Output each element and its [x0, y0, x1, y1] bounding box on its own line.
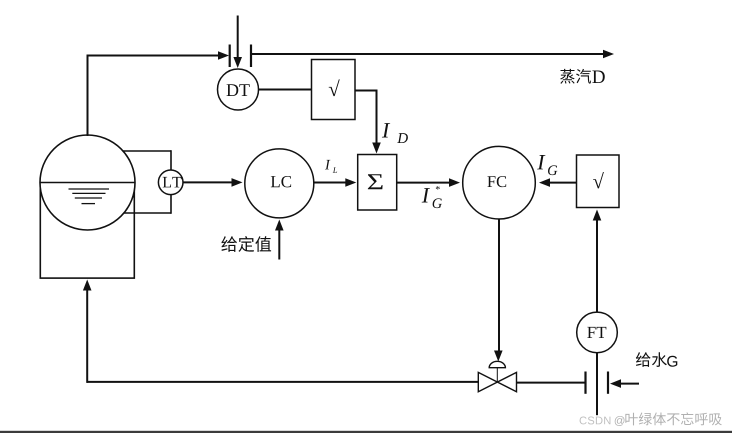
- label I_D: [382, 123, 408, 143]
- label I_G: [537, 155, 557, 175]
- square-root extractor (steam): [312, 60, 356, 120]
- label 蒸汽D: [560, 69, 605, 84]
- wire: steam line right + arrow: [251, 50, 614, 59]
- controller LC: [245, 149, 314, 218]
- wire: sqrt to summer, elbow down: [355, 90, 381, 154]
- wire: setpoint arrow into LC: [275, 220, 284, 260]
- square-root extractor (feedwater): [577, 155, 620, 208]
- summer Σ: [358, 155, 397, 211]
- label I_L: [325, 160, 337, 173]
- label I_G*: [422, 186, 442, 208]
- wire: feedwater pipe left of valve + feedback riser: [83, 280, 479, 383]
- wire: sqrt2 to FC: [539, 178, 577, 187]
- wire: feedwater inlet arrow: [610, 379, 639, 388]
- control valve body: [478, 372, 516, 391]
- wire: FC down to valve: [494, 219, 503, 362]
- wire: drum taps to LT: [123, 150, 172, 214]
- wire: drum top to steam line: [87, 51, 230, 136]
- transmitter FT: [577, 312, 618, 353]
- orifice plate bars (steam): [230, 45, 251, 68]
- orifice plate bars (feedwater): [586, 372, 609, 394]
- wire: DT impulse line from orifice: [233, 16, 242, 69]
- wire: feedwater pipe right of valve: [516, 382, 585, 384]
- wire: FT up to sqrt2: [593, 210, 602, 313]
- drum sphere: [40, 135, 135, 230]
- wire: FT down through orifice: [596, 353, 598, 416]
- label 给定值: [221, 236, 271, 252]
- wire: LC to summer: [314, 178, 357, 187]
- wire: DT to sqrt box: [259, 89, 312, 91]
- bottom rule: [0, 431, 732, 433]
- label 给水G: [636, 352, 677, 367]
- drum vessel body (rectangle): [40, 182, 134, 278]
- transmitter LT: [158, 170, 183, 195]
- water hatching: [69, 189, 110, 204]
- wire: LT to LC: [183, 178, 243, 187]
- valve actuator diaphragm: [489, 361, 505, 381]
- wire: summer to FC: [397, 178, 460, 187]
- transmitter DT: [218, 69, 259, 110]
- watermark CSDN: [580, 412, 722, 426]
- controller FC: [463, 146, 536, 219]
